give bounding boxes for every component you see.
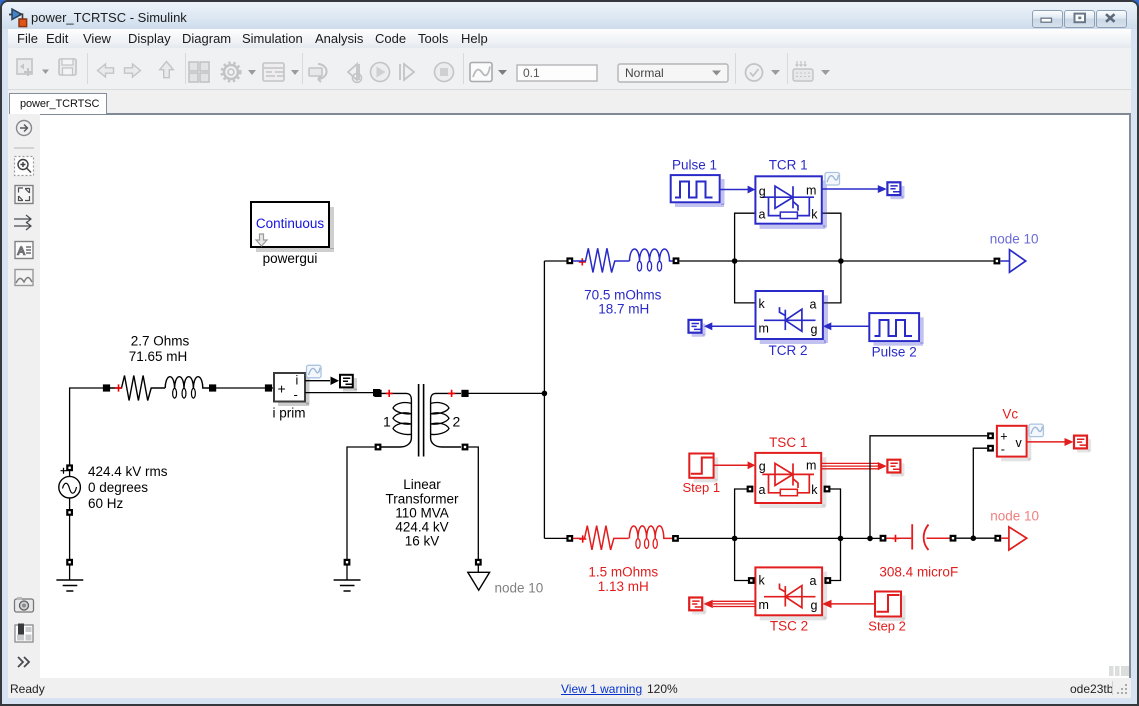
Normal dropdown <box>618 64 728 82</box>
junction TCR right <box>838 258 844 264</box>
svg-text:+: + <box>1000 430 1007 444</box>
svg-text:1: 1 <box>383 414 391 430</box>
TSC1 a/k wires <box>735 489 749 581</box>
linear transformer <box>381 384 461 457</box>
svg-text:Continuous: Continuous <box>256 216 325 231</box>
polarity + R1 <box>115 384 122 391</box>
sidebar icons <box>14 121 34 286</box>
svg-text:Step 2: Step 2 <box>868 619 906 634</box>
TCR 1 block <box>755 176 827 229</box>
node 10 from (red) <box>1001 537 1009 539</box>
statusbar extras <box>1113 681 1128 695</box>
svg-text:Transformer: Transformer <box>385 492 459 507</box>
wire transformer to ground G2 <box>347 447 375 580</box>
TSC 2 block <box>755 567 827 620</box>
transformer label <box>385 477 459 549</box>
scope badge Vc <box>1029 424 1044 437</box>
toolbar separators <box>88 53 788 84</box>
svg-text:2: 2 <box>453 414 461 430</box>
junction bus/transformer <box>542 391 548 397</box>
svg-text:18.7 mH: 18.7 mH <box>598 302 649 317</box>
svg-text:Linear: Linear <box>403 477 441 492</box>
svg-text:+: + <box>278 381 286 397</box>
port R1 right <box>209 384 216 391</box>
wire TCR2 m to terminator <box>712 325 756 327</box>
wire RL3 to capacitor <box>679 537 883 539</box>
svg-text:TSC 1: TSC 1 <box>769 435 807 450</box>
capacitor C1 308.4 microF <box>880 535 887 542</box>
svg-text:m: m <box>806 184 816 198</box>
svg-text:a: a <box>759 483 766 497</box>
wire R1 to i prim <box>216 387 274 389</box>
svg-text:node 10: node 10 <box>495 581 544 596</box>
ground G1 <box>56 580 83 591</box>
svg-text:m: m <box>759 598 769 612</box>
toolbar icons <box>17 59 454 83</box>
Pulse 1 block <box>671 175 725 207</box>
TCR1 a/k wires <box>735 213 756 303</box>
TSC2 ports k a <box>748 577 755 584</box>
svg-text:g: g <box>811 599 818 613</box>
svg-text:16 kV: 16 kV <box>405 534 440 549</box>
svg-text:71.65 mH: 71.65 mH <box>129 349 188 364</box>
ground G2 <box>334 580 361 591</box>
transformer ports <box>374 390 381 397</box>
svg-text:Pulse 2: Pulse 2 <box>872 345 917 360</box>
svg-text:m: m <box>806 459 816 473</box>
TSC1 m triple wire to terminator <box>821 463 878 468</box>
wire transformer out to bus <box>468 392 544 394</box>
junction TCR left <box>732 258 738 264</box>
svg-text:v: v <box>1016 436 1023 450</box>
polarity + winding1 <box>386 390 393 397</box>
AC source Vs <box>59 468 81 498</box>
svg-text:k: k <box>759 573 766 587</box>
Step 2 block <box>875 592 906 622</box>
svg-text:m: m <box>759 322 769 336</box>
build icon <box>793 61 830 81</box>
node 10 goto (black) <box>468 572 490 590</box>
port R1 left <box>103 384 110 391</box>
wire i out to terminator <box>305 380 330 382</box>
svg-text:0 degrees: 0 degrees <box>88 480 148 495</box>
wire pulse1 to TCR1 <box>720 189 748 191</box>
svg-text:-: - <box>1001 443 1005 457</box>
svg-text:g: g <box>759 460 766 474</box>
svg-text:a: a <box>759 208 766 222</box>
junction Vc plus <box>867 536 873 542</box>
svg-text:node 10: node 10 <box>990 232 1039 247</box>
svg-text:Step 1: Step 1 <box>683 480 721 495</box>
svg-text:-: - <box>294 387 298 402</box>
svg-text:TSC 2: TSC 2 <box>770 619 808 634</box>
main bus vertical <box>543 261 545 538</box>
wire TCR1 m to terminator <box>822 188 878 190</box>
terminator T1 <box>340 375 357 392</box>
wire source bottom to ground <box>69 498 71 580</box>
wire step2 to TSC2 g <box>831 603 875 605</box>
series RL branch R2 70.5 mOhms (blue) <box>573 248 674 272</box>
terminator T6 (red) <box>1074 436 1091 453</box>
svg-text:1.13 mH: 1.13 mH <box>598 579 649 594</box>
port source- <box>66 509 73 516</box>
wire pulse2 to TCR2 g <box>831 325 869 327</box>
TCR 2 block <box>756 291 829 344</box>
wire i prim - to transformer <box>305 392 378 394</box>
Pulse 2 block <box>869 313 923 346</box>
TSC1 ports a k <box>747 486 754 493</box>
powergui block <box>251 202 334 252</box>
wires to Vc <box>870 436 987 539</box>
TSC2 m triple wire to terminator <box>713 601 755 606</box>
polarity + winding2 <box>448 390 455 397</box>
scope badge i prim <box>307 365 322 378</box>
sidebar bottom icons <box>15 597 34 667</box>
simulink title icon <box>9 9 27 27</box>
svg-text:a: a <box>810 298 817 312</box>
current measurement i prim <box>274 373 310 406</box>
Step 1 block <box>689 454 718 483</box>
scope toolbar icon <box>470 63 507 82</box>
svg-text:i: i <box>296 374 299 388</box>
wire Vc to terminator <box>1027 441 1065 443</box>
svg-text:i prim: i prim <box>273 406 306 421</box>
svg-text:TCR 2: TCR 2 <box>768 343 807 358</box>
voltage measurement Vc <box>997 426 1031 462</box>
svg-text:Pulse 1: Pulse 1 <box>672 158 717 173</box>
junction TSC left <box>732 536 738 542</box>
svg-text:1.5 mOhms: 1.5 mOhms <box>588 565 658 580</box>
svg-text:TCR 1: TCR 1 <box>769 158 808 173</box>
svg-text:k: k <box>759 297 766 311</box>
node 10 from (blue) <box>1000 260 1009 262</box>
terminator T3 (blue) <box>689 320 706 337</box>
svg-text:powergui: powergui <box>263 251 318 266</box>
svg-text:g: g <box>811 322 818 336</box>
svg-text:70.5 mOhms: 70.5 mOhms <box>584 288 662 303</box>
series RL branch R1 2.7 Ohms 71.65 mH <box>107 376 211 401</box>
port source+ <box>66 464 73 471</box>
svg-text:308.4 microF: 308.4 microF <box>879 565 958 580</box>
svg-text:60 Hz: 60 Hz <box>88 496 124 511</box>
terminator T5 (red) <box>689 598 706 615</box>
wire cap to node10 red <box>956 537 997 539</box>
svg-text:Vc: Vc <box>1002 406 1018 421</box>
port ground G1 <box>66 559 73 566</box>
wire step1 to TSC1 g <box>714 464 748 466</box>
wire transformer to node10 bottom <box>468 447 478 572</box>
junction TSC right <box>838 536 844 542</box>
TSC 1 block <box>755 453 826 508</box>
window button glyphs <box>1041 14 1115 23</box>
wire source to R1 <box>70 388 104 476</box>
canvas corner grip <box>1109 666 1129 676</box>
check icon <box>746 64 781 81</box>
blue branch wire to RL2 <box>544 260 567 262</box>
svg-text:k: k <box>811 483 818 497</box>
svg-text:a: a <box>810 574 817 588</box>
terminator T2 (blue) <box>887 182 904 199</box>
svg-text:110 MVA: 110 MVA <box>395 506 449 521</box>
svg-text:g: g <box>759 184 766 198</box>
svg-text:2.7 Ohms: 2.7 Ohms <box>131 334 190 349</box>
terminator T4 (red) <box>887 460 904 477</box>
series RL branch R3 1.5 mOhms (red) <box>573 526 673 550</box>
scope badge TCR1 <box>825 173 840 186</box>
svg-text:k: k <box>811 208 818 222</box>
0.1 field <box>517 65 597 81</box>
svg-text:424.4 kV rms: 424.4 kV rms <box>88 464 168 479</box>
wire RL2 to node10 out <box>679 260 997 262</box>
svg-text:node 10: node 10 <box>990 509 1039 524</box>
svg-text:424.4 kV: 424.4 kV <box>395 520 448 535</box>
red branch wire to RL3 <box>544 537 567 539</box>
junction Vc minus <box>971 535 977 541</box>
